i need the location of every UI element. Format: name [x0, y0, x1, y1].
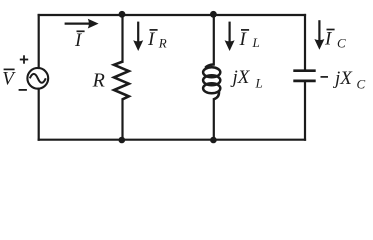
svg-text:I: I: [324, 29, 333, 50]
source V1 sine wave: [30, 74, 46, 83]
svg-text:R: R: [158, 36, 167, 51]
arrow I_C: [314, 20, 324, 50]
arrow I_L: [225, 22, 235, 51]
node A (top resistor junction): [119, 11, 126, 18]
svg-text:L: L: [255, 75, 263, 90]
source V1 circle: [27, 68, 48, 89]
node D (bottom inductor junction): [210, 137, 217, 144]
svg-text:jX: jX: [230, 67, 251, 88]
wire left lower: [38, 89, 40, 140]
wire bottom: [39, 139, 305, 141]
wire right upper: [304, 15, 306, 69]
label -jX_C: [321, 68, 366, 91]
svg-text:C: C: [337, 35, 346, 50]
wire inductor branch upper: [213, 15, 215, 65]
svg-text:R: R: [92, 69, 105, 91]
label jX_L: [230, 67, 263, 90]
svg-text:I: I: [74, 30, 83, 51]
label Ibar_L: [239, 29, 260, 50]
wire left upper: [38, 15, 40, 68]
minus sign: [19, 89, 27, 91]
arrow I_R: [133, 22, 143, 51]
wire inductor branch lower: [213, 99, 215, 140]
label Vbar: [2, 68, 16, 89]
capacitor C plates: [293, 71, 315, 81]
arrow I (top current): [65, 19, 99, 29]
svg-text:V: V: [2, 68, 16, 89]
svg-text:L: L: [252, 35, 260, 50]
label Ibar_R: [147, 29, 167, 51]
label Ibar_C: [324, 29, 346, 51]
wire resistor branch upper: [121, 15, 123, 62]
node B (top inductor junction): [210, 11, 217, 18]
plus sign: [20, 55, 28, 63]
label Ibar: [74, 30, 85, 51]
svg-text:I: I: [239, 29, 248, 50]
inductor L coil: [203, 64, 220, 99]
svg-text:jX: jX: [332, 68, 353, 89]
wire resistor branch lower: [121, 99, 123, 139]
svg-text:C: C: [357, 76, 366, 91]
wire top: [39, 14, 305, 16]
resistor R: [114, 62, 129, 100]
svg-text:I: I: [147, 29, 156, 50]
node C (bottom resistor junction): [119, 137, 126, 144]
wire right lower: [304, 82, 306, 139]
